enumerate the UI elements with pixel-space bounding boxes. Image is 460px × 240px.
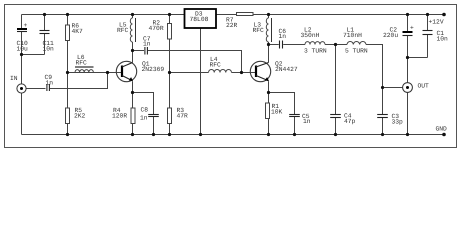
resistor R1 leads	[268, 93, 270, 104]
transistor Q2	[250, 61, 298, 82]
junction R6 / +8V rail	[66, 13, 69, 16]
junction C11 / +8V rail	[43, 13, 46, 16]
capacitor C11 leads	[44, 15, 46, 31]
wire +8V top rail left segment	[22, 14, 185, 16]
resistor R4	[112, 107, 135, 123]
svg-text:1n: 1n	[46, 80, 54, 87]
wire D3 ground pin	[200, 28, 202, 135]
resistor R6	[66, 23, 84, 41]
junction Q2 emitter/R1/C5	[267, 91, 270, 94]
svg-text:RFC: RFC	[210, 62, 222, 69]
svg-text:120R: 120R	[112, 113, 127, 120]
junction node C L4/C7/Q2 base	[240, 71, 243, 74]
connector J-OUT	[403, 83, 429, 93]
wire top rail D3 to R7	[216, 14, 236, 16]
capacitor C1 leads	[427, 15, 429, 31]
junction C10/C11 ground link	[20, 53, 23, 56]
wire Q1 emitter to C8	[133, 93, 154, 115]
svg-text:10K: 10K	[271, 109, 283, 116]
capacitor C4 top lead	[335, 45, 337, 115]
capacitor C4	[330, 113, 355, 126]
svg-text:10n: 10n	[437, 36, 449, 43]
svg-text:C8: C8	[141, 107, 149, 114]
wire node D to L1	[336, 44, 348, 46]
svg-text:IN: IN	[10, 75, 18, 82]
node +12V terminal dot	[442, 13, 446, 17]
svg-text:+: +	[24, 22, 28, 29]
resistor R2 leads	[169, 15, 171, 24]
capacitor C7	[143, 35, 151, 54]
svg-text:RFC: RFC	[76, 60, 88, 67]
wire L2 to node D	[325, 44, 336, 46]
svg-text:OUT: OUT	[418, 83, 430, 90]
wire IN pin to C9	[26, 88, 45, 90]
junction C4 / ground rail	[334, 133, 337, 136]
inductor L3	[253, 18, 272, 42]
inductor L1	[343, 27, 368, 55]
capacitor C4 bottom lead	[335, 118, 337, 135]
resistor R3 leads	[169, 73, 171, 109]
svg-text:1n: 1n	[143, 40, 151, 47]
capacitor C10	[17, 22, 29, 53]
capacitor C3 bottom lead	[382, 118, 384, 135]
svg-text:2N2369: 2N2369	[142, 66, 165, 73]
regulator D3 78L08	[185, 9, 217, 28]
wire Q2 emitter	[268, 81, 270, 92]
border frame	[5, 5, 457, 148]
wire node B to L4	[170, 72, 209, 74]
junction D3 pin 2 / ground rail	[199, 133, 202, 136]
svg-text:33p: 33p	[392, 119, 404, 126]
wire C6 to L2	[283, 44, 305, 46]
capacitor C7 leads	[133, 50, 145, 52]
transistor Q1	[116, 61, 164, 82]
capacitor C2 leads	[407, 15, 409, 32]
wire Q2 emitter to C5	[269, 93, 295, 115]
capacitor C5	[289, 113, 311, 125]
junction C2 / +12V rail	[406, 13, 409, 16]
junction C3 / ground rail	[381, 133, 384, 136]
svg-text:47p: 47p	[344, 118, 356, 125]
resistor R1	[266, 103, 283, 119]
capacitor C3 top lead	[382, 88, 384, 115]
capacitor C8	[140, 107, 159, 122]
capacitor C9	[45, 74, 54, 91]
inductor L2	[301, 27, 327, 55]
svg-text:1n: 1n	[303, 118, 311, 125]
resistor R2	[149, 20, 172, 39]
junction L5 / +8V rail	[131, 13, 134, 16]
inductor L5	[117, 18, 136, 42]
resistor R6 leads	[67, 15, 69, 26]
wire L4 to node C	[232, 72, 242, 74]
junction L3 / +12V rail	[267, 13, 270, 16]
junction node D L2/L1/C4	[334, 43, 337, 46]
wire IN shell down lead	[21, 93, 23, 134]
wire Q1 emitter	[132, 81, 134, 92]
junction OUT shell / ground rail	[406, 133, 409, 136]
node GND terminal dot	[442, 133, 446, 137]
connector J-IN	[10, 75, 26, 93]
junction C5 / ground rail	[293, 133, 296, 136]
capacitor C2	[383, 25, 414, 40]
wire Q2 collector	[268, 45, 270, 63]
svg-text:1n: 1n	[140, 115, 148, 122]
wire L1 to output riser	[366, 45, 383, 88]
junction R5 / ground rail	[66, 133, 69, 136]
svg-text:22R: 22R	[226, 22, 238, 29]
svg-text:5 TURN: 5 TURN	[345, 48, 368, 55]
junction R2 / +8V rail	[168, 13, 171, 16]
capacitor C5 bottom lead	[294, 117, 296, 135]
junction R6/R5/L6	[66, 71, 69, 74]
wire C7 feedback to node C	[170, 51, 242, 73]
svg-text:3 TURN: 3 TURN	[304, 48, 327, 55]
wire OUT shell down lead	[407, 92, 409, 134]
junction R1 / ground rail	[267, 133, 270, 136]
wire ground rail	[22, 134, 445, 136]
junction output node C3/OUT	[381, 86, 384, 89]
svg-text:RFC: RFC	[117, 27, 129, 34]
resistor R5	[66, 107, 86, 123]
resistor R4 leads	[132, 93, 134, 109]
junction C2/C1 ground link	[406, 56, 409, 59]
resistor R7	[226, 13, 253, 30]
svg-text:47R: 47R	[177, 113, 189, 120]
capacitor C11	[40, 31, 55, 53]
svg-text:RFC: RFC	[253, 27, 265, 34]
capacitor C6	[279, 28, 287, 48]
junction node B R2/R3/L4	[168, 71, 171, 74]
inductor L4	[209, 56, 232, 72]
wire C2-C1 ground link	[408, 57, 428, 59]
wire output node to OUT pin	[383, 87, 403, 89]
svg-text:220u: 220u	[383, 32, 398, 39]
resistor R5 leads	[67, 73, 69, 109]
junction node A C9/L6/Q1 base	[106, 71, 109, 74]
junction R4 / ground rail	[131, 133, 134, 136]
junction Q1 emitter/R4/C8	[131, 91, 134, 94]
junction Q1 collector/L5/C7	[131, 49, 134, 52]
wire node A to Q1 base	[68, 72, 123, 74]
capacitor C3	[377, 113, 403, 126]
junction C1 / +12V rail	[426, 13, 429, 16]
resistor R3	[168, 107, 189, 123]
svg-text:78L08: 78L08	[190, 16, 209, 23]
capacitor C6 left lead	[269, 44, 279, 46]
svg-text:GND: GND	[436, 126, 448, 133]
capacitor C8 bottom lead	[153, 117, 155, 135]
svg-text:1n: 1n	[279, 33, 287, 40]
junction Q2 collector/L3/C6	[267, 43, 270, 46]
junction C8 / ground rail	[152, 133, 155, 136]
wire +12V rail R7 to end	[253, 14, 444, 16]
inductor L5 leads	[132, 15, 134, 19]
junction R3 / ground rail	[168, 133, 171, 136]
svg-text:350nH: 350nH	[301, 32, 320, 39]
wire OUT shell up lead	[407, 58, 409, 83]
inductor L3 leads	[268, 15, 270, 19]
svg-text:2K2: 2K2	[74, 113, 86, 120]
wire Q1 collector	[132, 51, 134, 63]
capacitor C10 leads	[21, 15, 23, 29]
wire IN shell up lead	[21, 55, 23, 84]
svg-text:2N4427: 2N4427	[275, 66, 298, 73]
svg-text:4K7: 4K7	[72, 28, 84, 35]
wire C9 to node A riser	[50, 73, 108, 89]
capacitor C1	[423, 30, 449, 43]
wire node C to Q2 base	[242, 72, 257, 74]
svg-text:+12V: +12V	[429, 19, 444, 26]
wire C10-C11 bottom link	[22, 54, 45, 56]
svg-text:+: +	[410, 25, 414, 32]
svg-text:470R: 470R	[149, 25, 164, 32]
inductor L6	[75, 54, 94, 72]
svg-text:10u: 10u	[17, 46, 29, 53]
svg-text:710nH: 710nH	[343, 32, 362, 39]
svg-text:10n: 10n	[43, 46, 55, 53]
